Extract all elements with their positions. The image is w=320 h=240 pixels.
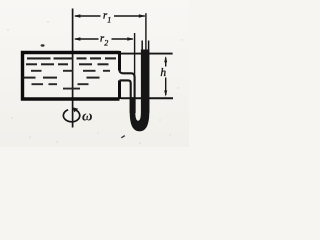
tank right wall lower segment: [118, 80, 121, 99]
dimension line r1: [75, 15, 145, 17]
manometer right leg right wall: [148, 41, 150, 114]
scan noise speckles: [7, 21, 182, 144]
dimension line r2: [75, 38, 133, 40]
extension line of r1 (down to manometer right leg): [145, 13, 147, 50]
extension line of r2 (down to manometer left leg): [134, 33, 136, 75]
tank right wall upper segment: [118, 51, 121, 71]
upper level reference line: [121, 53, 173, 55]
rotation arrow ellipse around axis: [63, 110, 79, 122]
svg-text:ω: ω: [82, 109, 93, 125]
label r2: [100, 34, 108, 48]
liquid surface dashes row 4: [24, 77, 100, 79]
arrowhead h down: [164, 90, 167, 96]
label r1: [103, 11, 111, 25]
ink dot above tank: [41, 44, 45, 46]
liquid surface dashes row 3: [31, 70, 110, 72]
liquid surface dashes row 5: [32, 83, 89, 85]
svg-text:2: 2: [104, 38, 108, 47]
tank outline (open rectangle, thick): [23, 53, 120, 100]
arrowhead r2 left: [74, 37, 81, 41]
liquid surface dashes row 2: [26, 63, 109, 65]
dimension line h: [165, 58, 167, 96]
rotation arrowhead: [73, 107, 79, 112]
stray speckle lower right: [121, 136, 125, 138]
arrowhead h up: [164, 56, 167, 62]
pipe bottom wall curving into manometer left-leg left wall: [120, 80, 131, 113]
pipe top wall curving into manometer left-leg right wall: [120, 70, 135, 113]
liquid surface dash row 6 (across axis): [63, 88, 80, 90]
mercury column fill (U shape): [130, 50, 150, 132]
axis of rotation (vertical centerline): [72, 9, 74, 128]
manometer right leg left wall: [141, 41, 143, 114]
paper background: [0, 0, 189, 147]
arrowhead r1 left: [74, 14, 81, 18]
svg-text:h: h: [160, 67, 166, 79]
arrowhead r2 right: [127, 37, 134, 41]
svg-text:1: 1: [107, 16, 111, 25]
liquid surface dashes row 1: [27, 57, 116, 59]
arrowhead r1 right: [139, 14, 146, 18]
lower level reference line (tank bottom extended under tube): [121, 97, 173, 99]
